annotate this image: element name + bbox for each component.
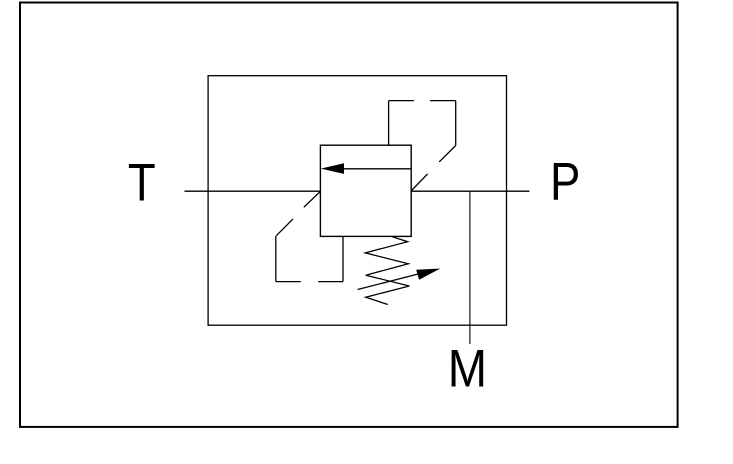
svg-text:M: M <box>448 339 487 398</box>
pilot line bottom: right vertical to valve bottom <box>342 236 344 281</box>
valve body square <box>320 145 411 236</box>
pilot line bottom: diagonal dash 1 <box>304 191 321 207</box>
flow path arrow line inside valve <box>344 168 412 170</box>
pilot line top: horizontal dash 2 <box>430 100 456 102</box>
pilot line top: horizontal dash 1 <box>389 100 414 102</box>
adjustment arrow shaft <box>358 273 421 289</box>
adjustment arrowhead <box>416 269 440 280</box>
pilot line bottom: diagonal dash 2 <box>276 219 293 236</box>
svg-text:P: P <box>550 152 580 211</box>
pilot line bottom: left vertical <box>275 236 277 282</box>
flow path arrowhead (points left) <box>321 163 344 174</box>
pilot line bottom: bottom dash 2 <box>318 281 343 283</box>
pilot line top: vertical from valve top <box>388 101 390 146</box>
pilot line top: diagonal dash 2 <box>412 174 428 191</box>
spring zigzag <box>365 237 409 305</box>
wire: gauge line to M <box>469 191 471 344</box>
wire: main line P side <box>411 190 529 192</box>
pilot line bottom: bottom dash 1 <box>276 281 301 283</box>
pilot line top: right vertical <box>455 101 457 146</box>
svg-text:T: T <box>128 153 156 212</box>
pilot line top: diagonal dash 1 <box>439 146 456 162</box>
wire: main line T side <box>185 190 321 192</box>
valve assembly enclosure rectangle <box>208 76 506 326</box>
